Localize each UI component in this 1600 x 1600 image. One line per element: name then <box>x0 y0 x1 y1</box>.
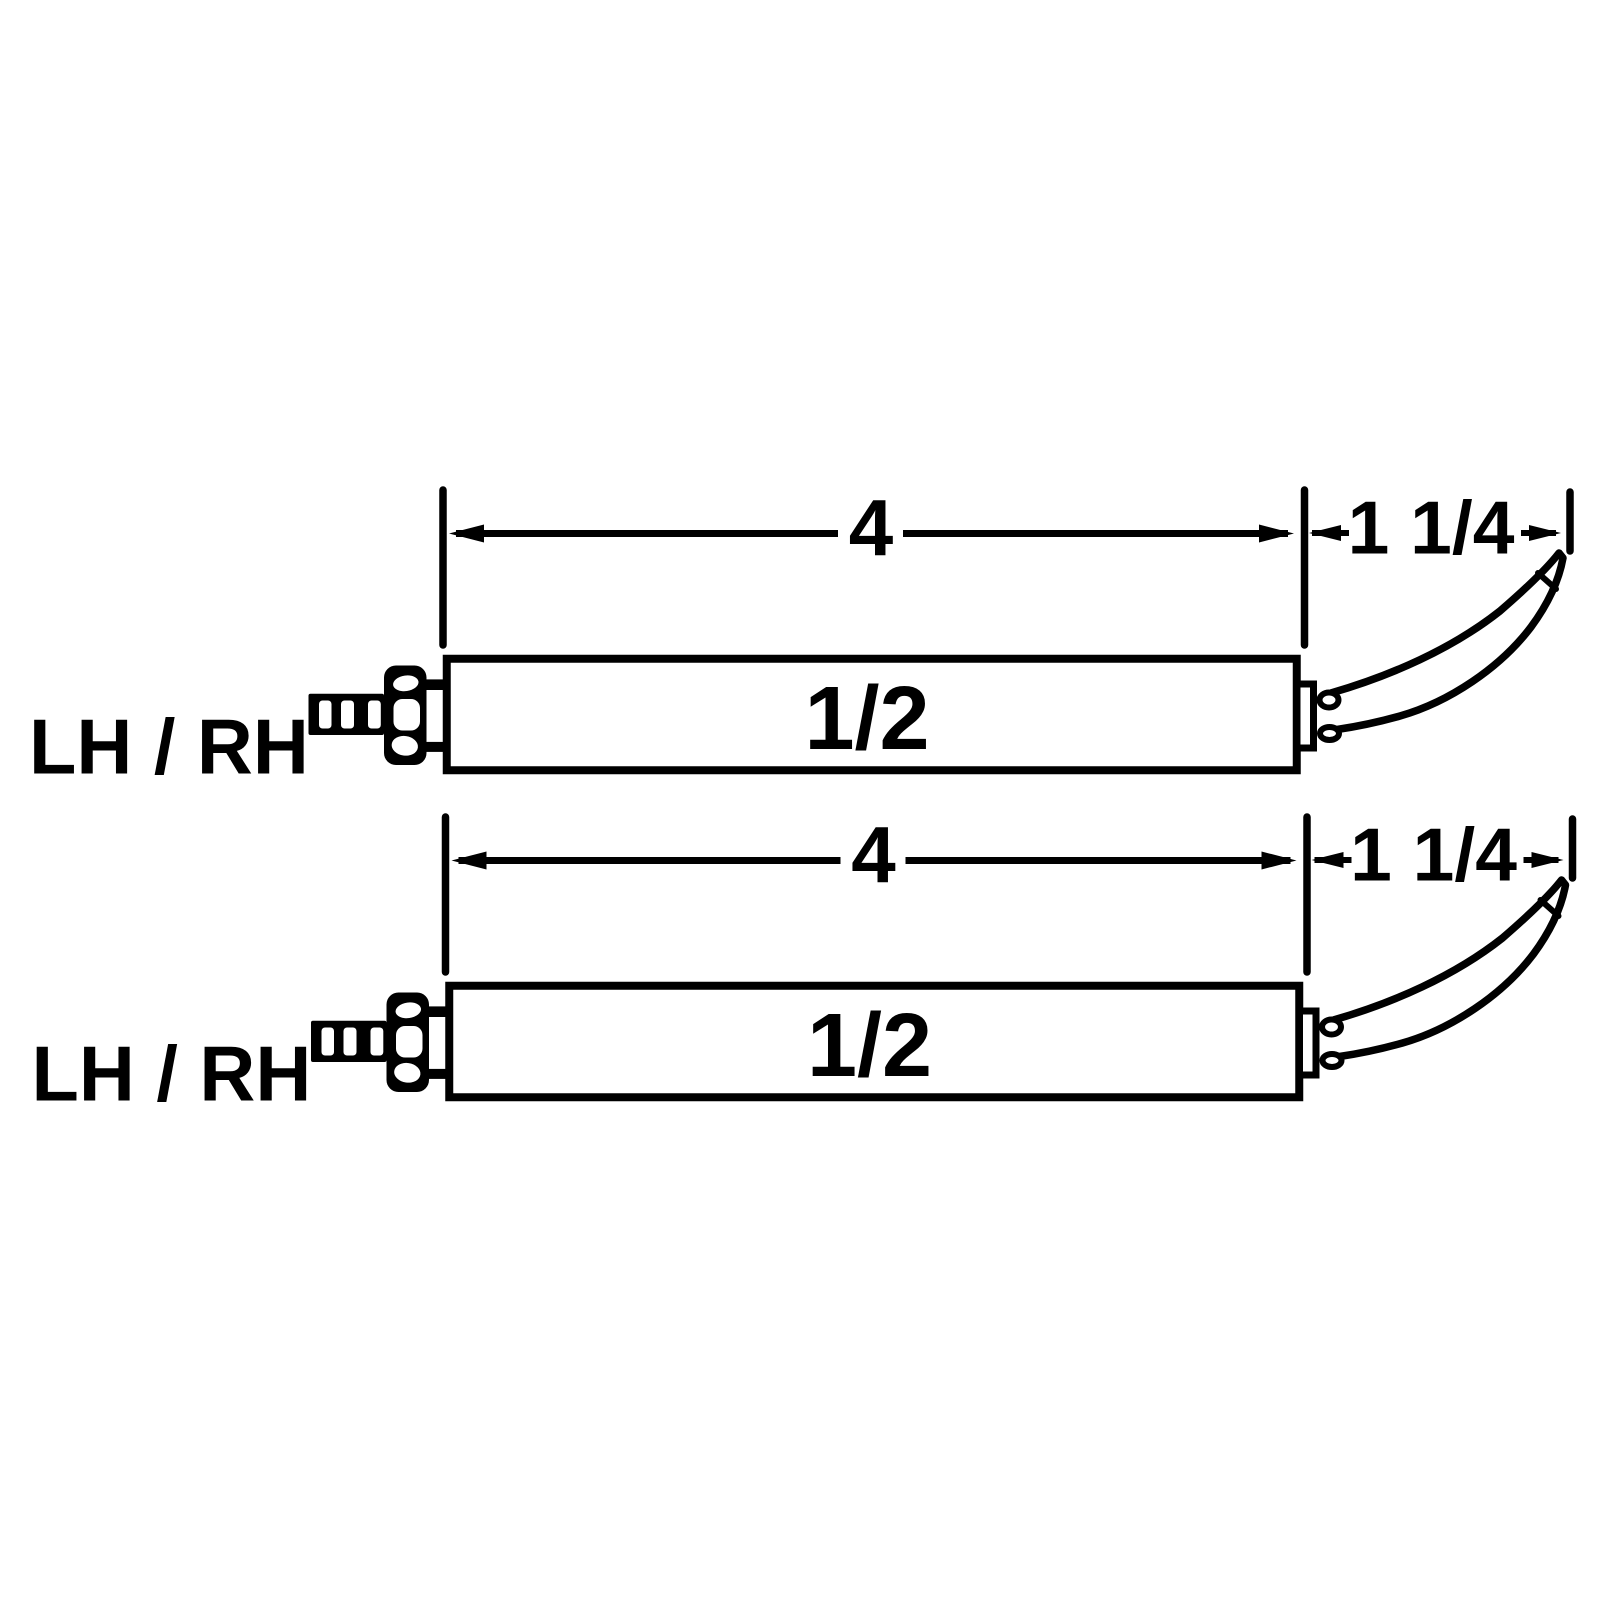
svg-text:1/2: 1/2 <box>804 669 929 769</box>
svg-text:LH / RH: LH / RH <box>29 705 309 791</box>
svg-text:4: 4 <box>849 483 894 572</box>
svg-text:1 1/4: 1 1/4 <box>1348 486 1515 570</box>
